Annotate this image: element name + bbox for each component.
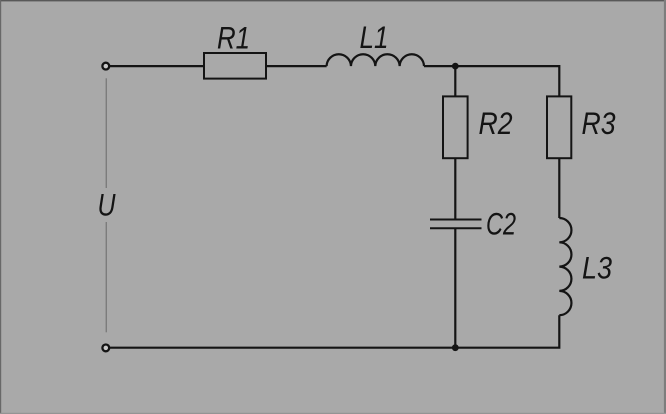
- wire: L3 down and bottom wire to terminal: [110, 315, 560, 348]
- wire: R2 to C2: [454, 158, 456, 219]
- frame border left edge: [0, 0, 1, 414]
- capacitor C2 top plate: [430, 219, 482, 221]
- junction node bottom: [452, 344, 459, 351]
- svg-text:R2: R2: [479, 106, 513, 141]
- wire: L1 to top-right corner: [424, 65, 559, 67]
- inductor L1: [327, 54, 424, 66]
- wire: C2 to bottom wire: [454, 229, 456, 348]
- resistor R1: [204, 53, 266, 79]
- frame border bottom edge: [0, 413, 666, 414]
- wire: terminal to R1: [110, 65, 204, 67]
- svg-text:L1: L1: [360, 20, 389, 55]
- svg-text:R3: R3: [582, 106, 616, 141]
- wire: corner down to R3: [558, 65, 560, 96]
- svg-text:U: U: [98, 188, 116, 223]
- svg-text:R1: R1: [217, 21, 250, 56]
- frame border right edge: [664, 0, 666, 414]
- inductor L3: [559, 218, 571, 315]
- source line U (lower segment): [105, 222, 107, 332]
- frame border top edge: [0, 0, 666, 1]
- wire: junction down to R2: [454, 66, 456, 96]
- wire: R3 to L3: [558, 158, 560, 218]
- capacitor C2 bottom plate: [430, 227, 482, 229]
- terminal bottom-left: [102, 345, 109, 352]
- terminal top-left: [102, 63, 109, 70]
- resistor R2: [443, 96, 468, 158]
- source line U (upper segment): [105, 78, 107, 188]
- resistor R3: [547, 96, 571, 158]
- wire: R1 to L1: [266, 65, 327, 67]
- junction node top: [452, 63, 459, 70]
- svg-text:C2: C2: [486, 207, 516, 242]
- svg-text:L3: L3: [582, 251, 613, 286]
